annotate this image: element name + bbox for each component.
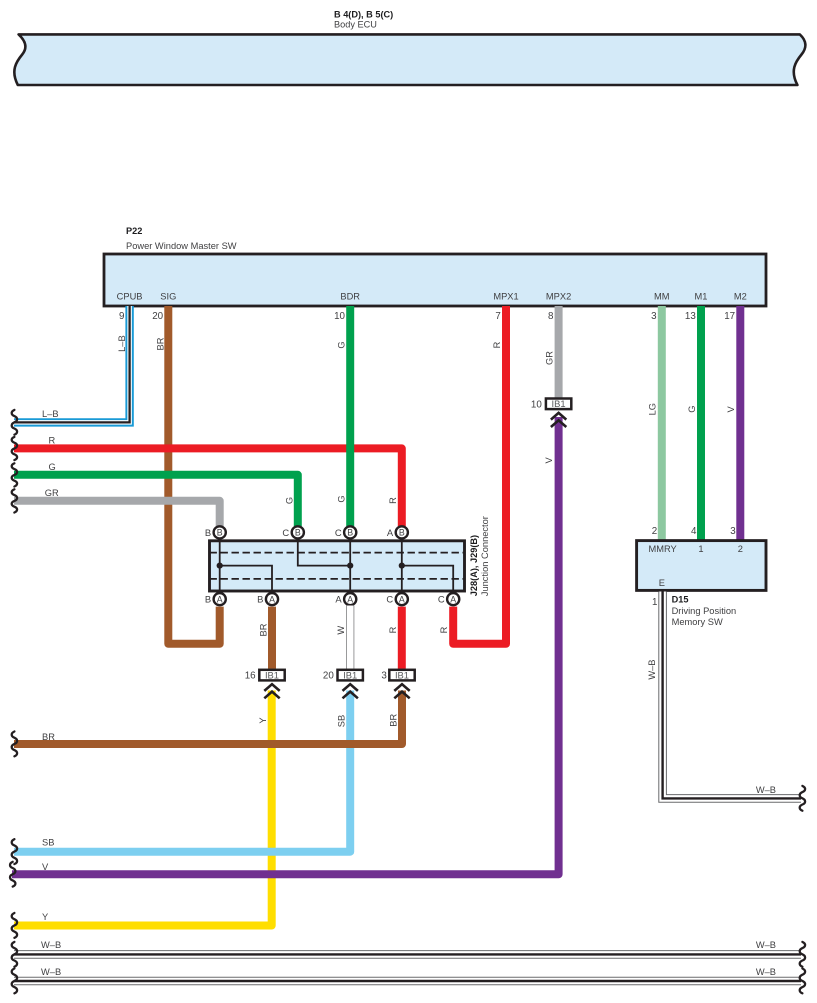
svg-text:7: 7 xyxy=(495,311,500,322)
svg-text:9: 9 xyxy=(119,311,124,322)
junction connector internal wiring xyxy=(220,542,454,590)
wire G from P22 M1 pin 13 to D15 pin 1 xyxy=(697,306,705,541)
wire BR from IB1 3 to left edge xyxy=(14,691,402,745)
pin C(B) junction top 2 xyxy=(282,526,303,538)
svg-text:IB1: IB1 xyxy=(343,670,357,681)
svg-text:A: A xyxy=(335,594,342,605)
svg-text:Driving Position: Driving Position xyxy=(672,606,737,616)
wire BR from P22 SIG pin 20 to junction pin B(A) xyxy=(168,306,219,644)
svg-text:A: A xyxy=(450,594,456,604)
pin C(A) junction bottom 4 xyxy=(386,593,407,605)
svg-text:J28(A), J29(B): J28(A), J29(B) xyxy=(469,535,479,596)
svg-text:G: G xyxy=(336,495,346,502)
svg-text:W: W xyxy=(336,626,346,635)
svg-text:3: 3 xyxy=(381,671,387,682)
wire V from P22 M2 pin 17 to D15 pin 2 xyxy=(736,306,744,541)
connector J28(A) J29(B) junction connector box xyxy=(210,541,465,591)
svg-text:Power Window Master SW: Power Window Master SW xyxy=(126,241,237,251)
svg-text:G: G xyxy=(49,462,56,472)
bus Body ECU B4/B5 band xyxy=(14,34,805,85)
connector IB1 pin 3 xyxy=(381,670,414,682)
svg-text:MMRY: MMRY xyxy=(649,544,677,554)
svg-text:SIG: SIG xyxy=(160,292,176,302)
connector IB1 pin 10 xyxy=(531,398,571,410)
svg-text:BR: BR xyxy=(388,714,398,727)
svg-text:MM: MM xyxy=(654,292,670,302)
svg-text:R: R xyxy=(492,341,502,348)
svg-text:E: E xyxy=(659,578,665,588)
shield chevrons IB1 pin 16 xyxy=(264,684,279,698)
shield chevrons IB1 pin 3 xyxy=(394,684,409,698)
svg-text:2: 2 xyxy=(652,526,657,537)
svg-text:W–B: W–B xyxy=(41,967,61,977)
D15 pin numbers xyxy=(652,526,737,608)
svg-text:G: G xyxy=(687,406,697,413)
svg-text:LG: LG xyxy=(647,403,657,415)
svg-text:17: 17 xyxy=(724,311,735,322)
svg-text:3: 3 xyxy=(730,526,736,537)
svg-text:W–B: W–B xyxy=(647,660,657,680)
svg-text:4: 4 xyxy=(691,526,697,537)
svg-text:BR: BR xyxy=(259,623,269,636)
svg-text:P22: P22 xyxy=(126,226,142,236)
svg-text:IB1: IB1 xyxy=(265,670,279,681)
svg-text:Y: Y xyxy=(258,717,268,723)
svg-text:C: C xyxy=(438,594,445,605)
connector IB1 pin 20 xyxy=(323,670,363,682)
wire G from left to junction pin C(B) xyxy=(14,475,298,527)
pin C(B) junction top 3 xyxy=(335,526,356,538)
svg-text:M2: M2 xyxy=(734,292,747,302)
svg-text:13: 13 xyxy=(685,311,696,322)
shield chevrons IB1 pin 20 xyxy=(343,684,358,698)
svg-text:B: B xyxy=(217,528,223,538)
svg-text:W–B: W–B xyxy=(41,940,61,950)
svg-text:C: C xyxy=(335,527,342,538)
wire R from P22 MPX1 pin 7 to junction pin C(A) xyxy=(453,306,506,644)
wire V from IB1 10 to left edge xyxy=(12,417,559,874)
svg-text:Junction Connector: Junction Connector xyxy=(480,516,490,596)
svg-text:20: 20 xyxy=(323,671,334,682)
svg-text:W–B: W–B xyxy=(756,785,776,795)
junction internal joint dots xyxy=(217,563,405,569)
wire G from P22 BDR pin 10 to junction pin C(B) xyxy=(346,306,354,526)
svg-text:GR: GR xyxy=(45,488,59,498)
pin A(A) junction bottom 3 xyxy=(335,593,356,605)
svg-text:CPUB: CPUB xyxy=(117,292,143,302)
svg-text:SB: SB xyxy=(42,837,54,847)
svg-text:B: B xyxy=(347,528,353,538)
pin C(A) junction bottom 5 xyxy=(438,593,459,605)
svg-text:IB1: IB1 xyxy=(552,398,566,409)
pin A(B) junction top 4 xyxy=(387,526,408,538)
connector IB1 pin 16 xyxy=(245,670,285,682)
svg-text:A: A xyxy=(347,594,353,604)
P22 pin name labels xyxy=(117,292,747,302)
wire GR from left to junction pin B(B) xyxy=(14,501,220,527)
svg-text:IB1: IB1 xyxy=(395,670,409,681)
svg-text:G: G xyxy=(285,497,295,504)
svg-text:1: 1 xyxy=(698,544,703,554)
svg-text:B 4(D), B 5(C): B 4(D), B 5(C) xyxy=(334,9,393,19)
svg-text:BDR: BDR xyxy=(340,292,360,302)
svg-text:10: 10 xyxy=(531,399,542,410)
svg-text:C: C xyxy=(282,527,289,538)
svg-text:BR: BR xyxy=(42,732,55,742)
pin B(A) junction bottom 1 xyxy=(205,593,226,605)
svg-text:A: A xyxy=(269,594,275,604)
svg-text:R: R xyxy=(439,626,449,633)
wire W-B bottom run 1 xyxy=(14,950,801,959)
wire R from left to junction pin A(B) xyxy=(14,448,402,526)
svg-text:B: B xyxy=(399,528,405,538)
pin B(A) junction bottom 2 xyxy=(257,593,278,605)
wire R from junction pin C(A) to IB1 3 xyxy=(398,607,406,669)
wire SB from IB1 20 to left edge xyxy=(14,691,350,852)
svg-text:R: R xyxy=(388,497,398,504)
svg-text:B: B xyxy=(205,594,211,605)
svg-text:GR: GR xyxy=(545,351,555,365)
svg-text:A: A xyxy=(387,527,394,538)
svg-text:M1: M1 xyxy=(695,292,708,302)
svg-text:R: R xyxy=(388,626,398,633)
svg-text:BR: BR xyxy=(155,337,165,350)
svg-text:A: A xyxy=(217,594,223,604)
svg-text:20: 20 xyxy=(152,311,163,322)
wire W-B from D15 pin E to right edge xyxy=(663,592,801,799)
svg-text:L–B: L–B xyxy=(117,335,127,352)
svg-text:C: C xyxy=(386,594,393,605)
svg-text:Body ECU: Body ECU xyxy=(334,20,377,30)
svg-text:W–B: W–B xyxy=(756,940,776,950)
wire W from junction pin A(A) to IB1 20 xyxy=(346,606,354,669)
svg-text:16: 16 xyxy=(245,671,256,682)
svg-text:SB: SB xyxy=(336,715,346,727)
wire L-B from P22 CPUB pin 9 xyxy=(14,306,130,422)
svg-text:8: 8 xyxy=(548,311,554,322)
svg-text:B: B xyxy=(205,527,211,538)
wire LG from P22 MM pin 3 to D15 MMRY xyxy=(658,306,666,541)
P22 pin numbers xyxy=(119,311,735,322)
wire Y from IB1 16 to left edge xyxy=(14,691,272,926)
svg-text:V: V xyxy=(726,406,736,413)
svg-text:B: B xyxy=(295,528,301,538)
svg-text:2: 2 xyxy=(738,544,743,554)
svg-text:A: A xyxy=(399,594,405,604)
svg-text:MPX1: MPX1 xyxy=(493,292,518,302)
svg-text:3: 3 xyxy=(651,311,657,322)
connector D15 Driving Position Memory SW xyxy=(637,541,766,591)
svg-text:MPX2: MPX2 xyxy=(546,292,571,302)
shield chevrons IB1 pin 10 xyxy=(551,413,566,427)
wire GR from P22 MPX2 pin 8 to IB1 xyxy=(555,306,563,399)
svg-text:L–B: L–B xyxy=(42,409,59,419)
svg-text:1: 1 xyxy=(652,597,657,608)
svg-text:V: V xyxy=(42,862,49,872)
svg-text:10: 10 xyxy=(334,311,345,322)
svg-text:Y: Y xyxy=(42,912,48,922)
wire W-B bottom run 2 xyxy=(14,977,801,986)
svg-text:Memory SW: Memory SW xyxy=(672,617,723,627)
junction connector internal dashed bus xyxy=(210,553,465,579)
svg-text:R: R xyxy=(49,436,56,446)
pin B(B) junction top 1 xyxy=(205,526,226,538)
svg-text:B: B xyxy=(257,594,263,605)
svg-text:W–B: W–B xyxy=(756,967,776,977)
svg-text:D15: D15 xyxy=(672,595,689,605)
svg-text:G: G xyxy=(336,341,346,348)
wire BR from junction pin B(A) to IB1 16 xyxy=(268,607,276,669)
svg-text:V: V xyxy=(544,457,554,464)
